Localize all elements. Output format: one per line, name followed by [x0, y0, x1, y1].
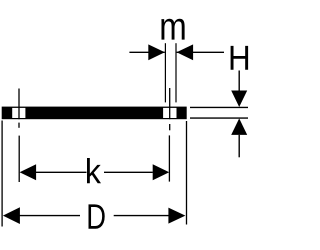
label m — [161, 19, 184, 40]
label D — [89, 204, 105, 228]
dimension m right arrow — [177, 44, 224, 60]
extension line H bottom — [190, 117, 248, 119]
centerline right bolt hole — [168, 88, 170, 182]
flange plate (section bar) — [2, 107, 187, 120]
extension line D left — [1, 121, 3, 227]
extension line m left — [164, 43, 166, 102]
extension line D right — [186, 121, 188, 225]
label H — [231, 46, 249, 70]
dimension k left arrow — [20, 164, 87, 180]
bolt hole right (slot) — [163, 108, 176, 118]
extension line H top — [190, 106, 248, 108]
extension line m right — [175, 43, 177, 102]
dimension D right arrow — [114, 208, 186, 224]
dimension k right arrow — [104, 164, 169, 180]
bolt hole left (slot) — [12, 108, 25, 118]
label k — [87, 158, 101, 183]
dimension H bottom arrow — [231, 118, 247, 157]
dimension m left arrow — [129, 44, 164, 60]
dimension D left arrow — [3, 207, 80, 224]
centerline left bolt hole — [18, 89, 20, 183]
dimension H top arrow — [231, 71, 247, 108]
